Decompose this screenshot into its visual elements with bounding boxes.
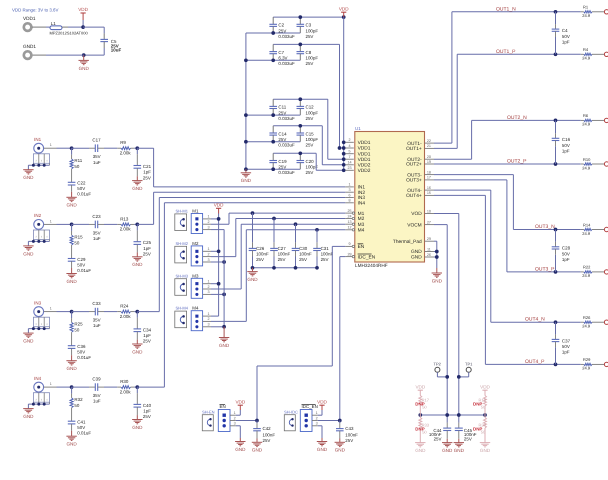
svg-text:25V: 25V xyxy=(263,438,271,443)
node gnd bus bottom xyxy=(222,325,226,329)
node IN1 output junction xyxy=(135,146,139,150)
pin 5 VDD1 (U1 left) xyxy=(345,150,370,158)
svg-text:M2: M2 xyxy=(358,216,365,222)
svg-text:OUT4+: OUT4+ xyxy=(406,193,422,199)
svg-text:25: 25 xyxy=(347,209,351,213)
capacitor C40 1pF 25V xyxy=(134,387,152,419)
svg-text:M3: M3 xyxy=(192,273,199,278)
svg-text:35V: 35V xyxy=(93,318,101,323)
svg-text:R24: R24 xyxy=(120,304,129,309)
node GND bus bottom junction xyxy=(244,167,248,171)
svg-text:25V: 25V xyxy=(143,252,151,257)
ground (IN3 shield) xyxy=(23,333,34,343)
svg-text:3: 3 xyxy=(207,258,209,262)
resistor R17 50 DNP xyxy=(415,394,429,415)
resistor R33 50 DNP xyxy=(415,415,429,439)
svg-text:OUT2+: OUT2+ xyxy=(406,162,422,168)
svg-text:4: 4 xyxy=(348,144,350,148)
power VDD (DNP R18) xyxy=(480,384,490,394)
capacitor C39 35V 1uF xyxy=(92,377,101,404)
wire L1 to VDD node xyxy=(62,26,68,28)
port (R10 output) xyxy=(604,162,608,166)
wire net OUT1_P xyxy=(434,147,457,149)
capacitor C25 1pF 25V xyxy=(134,224,152,256)
node C19 bottom junction xyxy=(271,167,275,171)
ground (mode headers) xyxy=(219,327,230,348)
jumper shunt SH-M2 xyxy=(175,241,189,263)
port (R22 output) xyxy=(604,270,608,274)
wire C19 bottom rail xyxy=(246,168,300,170)
capacitor C21 1pF 25V xyxy=(134,148,152,180)
svg-text:18: 18 xyxy=(427,170,431,174)
power VDD (IDC_EN) xyxy=(317,399,327,410)
svg-text:100nF: 100nF xyxy=(256,251,269,256)
wire C20 top to VDD pin row xyxy=(300,152,316,154)
node mode line at C27 xyxy=(272,217,276,221)
svg-text:OUT3+: OUT3+ xyxy=(406,178,422,184)
svg-text:OUT4_P: OUT4_P xyxy=(525,359,545,365)
node rail at C31 xyxy=(315,266,319,270)
node VDD bus pin junction xyxy=(342,168,346,172)
svg-text:SH-M2: SH-M2 xyxy=(176,241,189,246)
svg-text:100nF: 100nF xyxy=(278,251,291,256)
svg-text:DNP: DNP xyxy=(473,426,482,431)
resistor R4 24.9 xyxy=(581,47,605,61)
svg-text:R26: R26 xyxy=(583,315,591,320)
svg-text:LMH32404RHF: LMH32404RHF xyxy=(355,263,388,268)
resistor R1 24.9 xyxy=(581,5,605,19)
svg-text:GND: GND xyxy=(247,277,258,282)
svg-text:1: 1 xyxy=(207,280,209,284)
svg-text:IN1: IN1 xyxy=(34,137,42,142)
pin 20 OUT2- (U1 right) xyxy=(407,155,434,163)
svg-text:24.9: 24.9 xyxy=(582,324,591,329)
svg-text:1pF: 1pF xyxy=(143,409,151,414)
svg-text:1: 1 xyxy=(50,307,52,311)
svg-text:25V: 25V xyxy=(256,257,264,262)
svg-text:5: 5 xyxy=(348,150,350,154)
svg-text:C4: C4 xyxy=(562,28,568,33)
svg-text:C34: C34 xyxy=(143,327,152,332)
svg-text:C27: C27 xyxy=(278,246,287,251)
svg-text:35V: 35V xyxy=(93,393,101,398)
connector GND1 xyxy=(23,44,36,59)
svg-text:GND: GND xyxy=(132,186,143,191)
capacitor C27 100nF 25V xyxy=(270,219,290,268)
wire net OUT2_N xyxy=(434,158,472,160)
resistor R26 24.9 xyxy=(581,315,605,329)
pin 10 VOD (U1 right) xyxy=(411,209,434,217)
svg-text:C2: C2 xyxy=(278,23,284,28)
svg-text:SH-M3: SH-M3 xyxy=(176,273,189,278)
wire IN3 shield to gnd xyxy=(28,328,49,330)
svg-text:OUT3-: OUT3- xyxy=(407,172,422,178)
pin 1 IN1 (U1 left) xyxy=(345,183,365,191)
wire Thermal_Pad to GND bus xyxy=(434,240,437,242)
svg-text:0.033uF: 0.033uF xyxy=(278,143,295,148)
svg-text:23: 23 xyxy=(347,166,351,170)
header EN xyxy=(218,404,230,431)
port (R6 output) xyxy=(604,118,608,122)
svg-text:C15: C15 xyxy=(306,131,315,136)
svg-text:VDD: VDD xyxy=(317,399,327,404)
svg-text:VDD2: VDD2 xyxy=(358,168,371,174)
wire C33 to R24 xyxy=(98,311,104,313)
pin 1 IDC_EN to VDD xyxy=(312,410,322,415)
svg-text:GND: GND xyxy=(252,448,263,453)
svg-text:GND: GND xyxy=(480,448,491,453)
ground (top-left) xyxy=(79,55,90,71)
svg-text:M3: M3 xyxy=(358,222,365,228)
svg-text:C29: C29 xyxy=(77,257,86,262)
svg-text:GND: GND xyxy=(415,448,426,453)
test point TP2 xyxy=(434,361,442,372)
pin 2 M4 signal wire xyxy=(203,317,247,321)
svg-text:OUT1_P: OUT1_P xyxy=(496,49,516,55)
ground (C25) xyxy=(132,252,143,267)
svg-text:1uF: 1uF xyxy=(93,323,101,328)
svg-text:17: 17 xyxy=(427,176,431,180)
wire net OUT3_P xyxy=(434,179,507,181)
ground (IN4 shield) xyxy=(23,409,34,419)
capacitor C16 50V 1pF xyxy=(552,119,571,166)
capacitor C41 50V 0.01uF xyxy=(68,420,92,436)
resistor R15 50 xyxy=(70,224,83,258)
svg-text:IN2: IN2 xyxy=(34,213,42,218)
svg-text:20: 20 xyxy=(427,155,431,159)
wire TP1 to VOD xyxy=(468,372,470,377)
pin 4 VDD1 (U1 left) xyxy=(345,144,370,152)
ground (C44) xyxy=(442,439,453,453)
svg-text:19: 19 xyxy=(427,160,431,164)
wire node to C17 xyxy=(72,147,89,149)
svg-text:C30: C30 xyxy=(299,246,308,251)
svg-text:50: 50 xyxy=(74,403,79,408)
svg-text:3: 3 xyxy=(207,323,209,327)
svg-text:SH-EN: SH-EN xyxy=(202,410,215,415)
svg-text:1: 1 xyxy=(207,215,209,219)
wire C14/C15 top rail xyxy=(273,125,300,127)
wire IN2 to U1 xyxy=(137,223,153,225)
node bias row left stack xyxy=(418,413,422,417)
resistor R14 24.9 xyxy=(581,222,605,236)
wire net OUT3_N xyxy=(434,174,513,176)
svg-text:3: 3 xyxy=(348,188,350,192)
svg-text:R25: R25 xyxy=(74,322,83,327)
wire M1 to U1 xyxy=(228,213,230,224)
svg-text:1: 1 xyxy=(348,183,350,187)
svg-text:C33: C33 xyxy=(92,301,101,306)
svg-text:14: 14 xyxy=(347,161,351,165)
svg-text:GND: GND xyxy=(454,448,465,453)
svg-text:2: 2 xyxy=(316,416,318,420)
ground (C34) xyxy=(132,340,143,355)
svg-text:OUT4_N: OUT4_N xyxy=(525,317,545,323)
wire IN1 shield to gnd xyxy=(28,164,49,166)
resistor R30 2.00k xyxy=(120,379,132,394)
wire C39 to R30 xyxy=(98,386,104,388)
node C2 bottom junction xyxy=(271,31,275,35)
svg-text:R30: R30 xyxy=(120,379,129,384)
svg-text:C3: C3 xyxy=(306,23,312,28)
svg-text:DNP: DNP xyxy=(415,402,424,407)
svg-text:25V: 25V xyxy=(434,437,442,442)
svg-text:GND: GND xyxy=(23,251,34,256)
svg-text:OUT2_P: OUT2_P xyxy=(507,159,527,165)
capacitor C42 100nF 25V xyxy=(253,421,275,443)
wire C11/C12 top rail xyxy=(273,98,300,100)
svg-text:R29: R29 xyxy=(583,357,591,362)
svg-text:21: 21 xyxy=(427,144,431,148)
svg-text:25V: 25V xyxy=(345,438,353,443)
svg-text:2: 2 xyxy=(207,220,209,224)
svg-text:11: 11 xyxy=(427,247,431,251)
svg-text:100nF: 100nF xyxy=(299,251,312,256)
svg-text:2: 2 xyxy=(207,317,209,321)
node rail at C26 xyxy=(251,266,255,270)
capacitor C15 100pF 25V xyxy=(297,126,319,148)
svg-text:22: 22 xyxy=(427,139,431,143)
svg-text:13: 13 xyxy=(347,220,351,224)
svg-text:C31: C31 xyxy=(321,246,330,251)
svg-text:50V: 50V xyxy=(562,34,570,39)
svg-text:24.9: 24.9 xyxy=(582,56,591,61)
svg-text:R9: R9 xyxy=(120,140,126,145)
inductor L1 MPZ2012S102AT000 xyxy=(50,21,89,35)
svg-text:25V: 25V xyxy=(143,414,151,419)
svg-text:R32: R32 xyxy=(74,397,83,402)
node TP2 junction xyxy=(445,375,449,379)
svg-text:25V: 25V xyxy=(306,61,314,66)
wire IN3 to U1 xyxy=(137,311,159,313)
node GND bus junction xyxy=(244,140,248,144)
svg-text:IDC_EN: IDC_EN xyxy=(302,404,318,409)
capacitor C29 50V 0.01uF xyxy=(68,257,92,273)
ground (C40) xyxy=(132,415,143,430)
svg-text:25V: 25V xyxy=(299,257,307,262)
svg-text:GND: GND xyxy=(23,339,34,344)
node rail at C27 xyxy=(272,266,276,270)
svg-text:2.00k: 2.00k xyxy=(120,227,132,232)
svg-text:50V: 50V xyxy=(562,251,570,256)
node GND junction xyxy=(82,53,86,57)
svg-text:GND: GND xyxy=(411,249,422,255)
svg-text:OUT1+: OUT1+ xyxy=(406,146,422,152)
svg-text:50V: 50V xyxy=(77,425,85,430)
svg-text:GND: GND xyxy=(235,447,246,452)
wire bottom rail to GND1 xyxy=(46,54,84,56)
wire IN2 pin1 xyxy=(44,219,57,224)
jumper shunt SH-M4 xyxy=(175,306,189,328)
svg-text:0.033uF: 0.033uF xyxy=(278,34,295,39)
svg-text:C21: C21 xyxy=(143,164,152,169)
svg-text:16: 16 xyxy=(427,186,431,190)
header M3 xyxy=(191,273,202,298)
node VDD bus pin junction xyxy=(342,140,346,144)
svg-text:GND: GND xyxy=(66,366,77,371)
svg-text:Thermal_Pad: Thermal_Pad xyxy=(393,239,422,245)
svg-text:1pF: 1pF xyxy=(562,257,570,262)
node rail at C30 xyxy=(294,266,298,270)
node bias row at VOD xyxy=(457,413,461,417)
svg-text:1: 1 xyxy=(50,382,52,386)
svg-text:GND: GND xyxy=(66,442,77,447)
svg-text:C43: C43 xyxy=(345,426,354,431)
svg-text:VDD1: VDD1 xyxy=(358,140,371,146)
svg-text:50V: 50V xyxy=(77,262,85,267)
svg-text:0.01uF: 0.01uF xyxy=(77,431,91,436)
pin 19 OUT2+ (U1 right) xyxy=(406,160,434,168)
pin 11 GND (U1 right) xyxy=(411,247,434,255)
connector IN1 xyxy=(33,137,49,165)
svg-text:OUT2_N: OUT2_N xyxy=(507,115,527,121)
svg-text:10: 10 xyxy=(427,209,431,213)
ground (C29) xyxy=(66,268,77,284)
wire GND pins bus xyxy=(434,251,437,253)
pin 3 IDC_EN to gnd xyxy=(312,422,322,438)
svg-text:C40: C40 xyxy=(143,403,152,408)
node VDD stem at M2 pin1 xyxy=(217,249,221,253)
power VDD (decoupling bank) xyxy=(339,6,349,17)
ground (IDC_EN pin3) xyxy=(317,438,328,452)
wire C7/C8 top rail xyxy=(273,43,300,45)
svg-text:24.9: 24.9 xyxy=(582,366,591,371)
pin 23 VDD2 (U1 left) xyxy=(345,166,370,174)
header M1 xyxy=(191,209,202,234)
pin 3 M3 wire to gnd bus xyxy=(203,290,225,294)
pin 1 M2 wire to VDD xyxy=(203,247,219,251)
svg-text:100nF: 100nF xyxy=(345,432,358,437)
pin 1 M1 wire to VDD xyxy=(203,215,219,219)
svg-text:R1: R1 xyxy=(583,5,589,10)
svg-text:VDD1: VDD1 xyxy=(358,146,371,152)
svg-text:C41: C41 xyxy=(77,420,86,425)
pin 29 Thermal_Pad (U1 right) xyxy=(393,237,434,245)
wire net OUT2_P xyxy=(434,163,581,165)
resistor R6 24.9 xyxy=(581,113,605,127)
pin 3 M1 wire to gnd bus xyxy=(203,225,225,229)
svg-text:DNP: DNP xyxy=(473,402,482,407)
svg-text:26: 26 xyxy=(427,253,431,257)
capacitor C12 100pF 25V xyxy=(297,99,319,121)
pin 1 EN to VDD xyxy=(230,410,240,415)
pin 15 OUT4+ (U1 right) xyxy=(406,191,434,199)
wire IDC_EN from U1 xyxy=(340,256,346,258)
svg-text:C39: C39 xyxy=(92,377,101,382)
wire R24 to node xyxy=(131,311,135,313)
svg-text:VDD: VDD xyxy=(235,399,245,404)
svg-text:100nF: 100nF xyxy=(263,432,276,437)
pin 3 M4 wire to gnd bus xyxy=(203,323,225,327)
power VDD (mode headers) xyxy=(214,203,224,214)
pin 2 M2 signal wire xyxy=(203,252,236,256)
pin 13 M3 (U1 left) xyxy=(345,220,364,228)
ground (C43) xyxy=(335,439,346,453)
svg-text:U1: U1 xyxy=(355,126,361,131)
svg-text:1: 1 xyxy=(207,312,209,316)
svg-text:1: 1 xyxy=(316,411,318,415)
svg-text:3: 3 xyxy=(316,422,318,426)
svg-text:100pF: 100pF xyxy=(306,28,319,33)
svg-text:0.033uF: 0.033uF xyxy=(278,170,295,175)
pin 2 IDC_EN signal xyxy=(312,416,340,420)
svg-text:R6: R6 xyxy=(583,113,589,118)
wire TP2 to VOCM xyxy=(436,372,438,377)
svg-text:R22: R22 xyxy=(583,265,591,270)
svg-text:25V: 25V xyxy=(143,175,151,180)
svg-text:24.9: 24.9 xyxy=(582,165,591,170)
svg-text:C7: C7 xyxy=(278,50,284,55)
svg-text:IN3: IN3 xyxy=(34,300,42,305)
jumper shunt SH-M1 xyxy=(175,209,189,231)
svg-text:GND: GND xyxy=(411,255,422,261)
wire IN3 pin1 xyxy=(44,307,57,312)
svg-text:R15: R15 xyxy=(74,234,83,239)
pin 9 EN (U1 left) xyxy=(345,242,364,250)
svg-text:12: 12 xyxy=(347,226,351,230)
svg-text:2: 2 xyxy=(234,416,236,420)
svg-text:50: 50 xyxy=(74,164,79,169)
wire IN1 pin1 xyxy=(44,143,57,148)
svg-text:VOD: VOD xyxy=(411,211,422,217)
svg-text:25V: 25V xyxy=(278,257,286,262)
svg-text:R10: R10 xyxy=(583,157,591,162)
svg-text:VDD: VDD xyxy=(415,384,425,389)
header IDC_EN xyxy=(300,404,317,431)
wire GND bus (left of cap pairs) xyxy=(245,33,247,169)
svg-text:1uF: 1uF xyxy=(93,160,101,165)
pin 24 M2 (U1 left) xyxy=(345,214,364,222)
wire C19/C20 top rail xyxy=(273,152,300,154)
wire node to C33 xyxy=(72,311,89,313)
svg-text:C42: C42 xyxy=(263,426,272,431)
pin 7 VDD1 (U1 left) xyxy=(345,155,370,163)
wire cap gnd rail xyxy=(253,267,318,269)
svg-text:GND: GND xyxy=(432,278,443,283)
svg-text:100pF: 100pF xyxy=(306,110,319,115)
wire IN4 pin1 xyxy=(44,382,57,387)
svg-text:MPZ2012S102AT000: MPZ2012S102AT000 xyxy=(50,30,89,35)
svg-text:1pF: 1pF xyxy=(143,333,151,338)
svg-text:OUT3_P: OUT3_P xyxy=(535,266,555,272)
svg-text:1pF: 1pF xyxy=(562,350,570,355)
svg-text:EN: EN xyxy=(358,244,365,250)
connector IN3 xyxy=(33,300,49,328)
svg-text:25V: 25V xyxy=(306,116,314,121)
node VDD bus pin junction xyxy=(342,152,346,156)
ground (IN1 shield) xyxy=(23,170,34,180)
power VDD (DNP R17) xyxy=(415,384,425,394)
svg-text:6: 6 xyxy=(348,193,350,197)
svg-text:24.9: 24.9 xyxy=(582,13,591,18)
connector IN4 xyxy=(33,376,49,404)
node IN2 output junction xyxy=(135,223,139,227)
header M4 xyxy=(191,306,202,331)
svg-text:35V: 35V xyxy=(93,230,101,235)
node IN2 input junction xyxy=(70,223,74,227)
svg-text:VDD2: VDD2 xyxy=(358,163,371,169)
capacitor C28 50V 1pF xyxy=(552,228,571,274)
svg-text:GND: GND xyxy=(23,414,34,419)
capacitor C34 1pF 25V xyxy=(134,312,152,344)
node VDD/L1 junction xyxy=(81,25,85,29)
svg-text:M2: M2 xyxy=(192,241,199,246)
ground (C45) xyxy=(454,439,465,453)
svg-text:M4: M4 xyxy=(358,228,365,234)
capacitor C31 100nF 25V xyxy=(313,230,333,268)
resistor R10 24.9 xyxy=(581,157,605,171)
pin 14 VDD2 (U1 left) xyxy=(345,161,370,169)
